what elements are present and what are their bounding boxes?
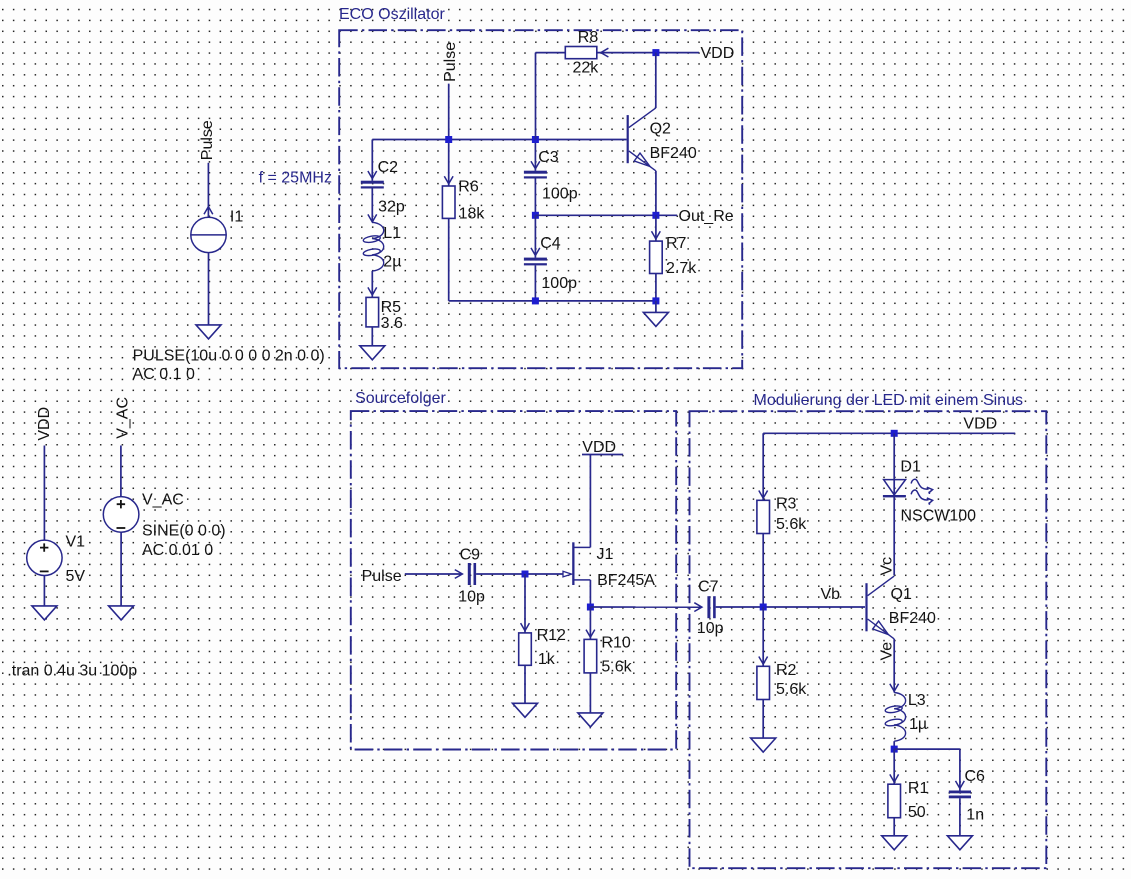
svg-text:VDD: VDD bbox=[36, 407, 53, 441]
svg-text:SINE(0 0 0): SINE(0 0 0) bbox=[142, 523, 226, 540]
svg-text:50: 50 bbox=[908, 804, 926, 821]
svg-text:Vb: Vb bbox=[821, 586, 841, 603]
svg-text:VDD: VDD bbox=[963, 415, 997, 432]
svg-text:f = 25MHz: f = 25MHz bbox=[259, 170, 332, 187]
svg-text:1n: 1n bbox=[966, 807, 984, 824]
svg-text:R2: R2 bbox=[776, 662, 797, 679]
svg-text:100p: 100p bbox=[542, 186, 578, 203]
svg-text:L3: L3 bbox=[908, 692, 926, 709]
svg-text:10p: 10p bbox=[458, 588, 485, 605]
svg-text:10p: 10p bbox=[697, 620, 724, 637]
svg-text:C6: C6 bbox=[965, 768, 986, 785]
svg-text:Sourcefolger: Sourcefolger bbox=[355, 390, 446, 407]
svg-text:VDD: VDD bbox=[701, 45, 735, 62]
svg-text:C4: C4 bbox=[540, 235, 561, 252]
svg-text:.tran 0.4u 3u 100p: .tran 0.4u 3u 100p bbox=[7, 663, 137, 680]
svg-text:3.6: 3.6 bbox=[381, 315, 403, 332]
svg-text:PULSE(10u 0 0 0 0 2n 0 0): PULSE(10u 0 0 0 0 2n 0 0) bbox=[133, 348, 325, 365]
svg-text:Q2: Q2 bbox=[650, 121, 671, 138]
svg-text:AC 0.01 0: AC 0.01 0 bbox=[142, 542, 213, 559]
svg-text:D1: D1 bbox=[900, 459, 921, 476]
svg-text:100p: 100p bbox=[541, 275, 577, 292]
svg-text:2.7k: 2.7k bbox=[666, 260, 697, 277]
svg-text:NSCW100: NSCW100 bbox=[901, 507, 977, 524]
svg-text:C3: C3 bbox=[538, 149, 559, 166]
svg-text:18k: 18k bbox=[459, 206, 486, 223]
svg-text:AC 0.1 0: AC 0.1 0 bbox=[133, 366, 195, 383]
svg-text:C2: C2 bbox=[378, 159, 399, 176]
svg-text:Out_Re: Out_Re bbox=[679, 208, 734, 225]
svg-text:R6: R6 bbox=[458, 179, 479, 196]
svg-text:R7: R7 bbox=[666, 235, 687, 252]
svg-text:22k: 22k bbox=[573, 59, 600, 76]
svg-text:R10: R10 bbox=[601, 634, 630, 651]
svg-text:Ve: Ve bbox=[879, 642, 896, 661]
svg-text:J1: J1 bbox=[597, 546, 614, 563]
svg-text:5V: 5V bbox=[66, 568, 86, 585]
svg-text:VDD: VDD bbox=[582, 439, 616, 456]
svg-text:Q1: Q1 bbox=[891, 586, 912, 603]
svg-text:L1: L1 bbox=[383, 225, 401, 242]
svg-text:V_AC: V_AC bbox=[142, 492, 184, 509]
svg-text:5.6k: 5.6k bbox=[776, 516, 807, 533]
svg-text:V_AC: V_AC bbox=[115, 397, 132, 439]
svg-text:R3: R3 bbox=[776, 495, 797, 512]
svg-text:Pulse: Pulse bbox=[362, 568, 402, 585]
svg-text:Vc: Vc bbox=[879, 557, 896, 576]
svg-text:BF245A: BF245A bbox=[597, 572, 655, 589]
svg-text:R5: R5 bbox=[381, 299, 402, 316]
svg-text:R8: R8 bbox=[578, 29, 599, 46]
svg-text:C7: C7 bbox=[698, 578, 719, 595]
svg-text:5.6k: 5.6k bbox=[601, 659, 632, 676]
svg-text:R1: R1 bbox=[908, 780, 929, 797]
svg-text:1k: 1k bbox=[538, 651, 556, 668]
svg-text:32p: 32p bbox=[378, 199, 405, 216]
svg-text:ECO Oszillator: ECO Oszillator bbox=[339, 6, 445, 23]
svg-text:Modulierung der LED mit einem: Modulierung der LED mit einem Sinus bbox=[754, 392, 1023, 409]
svg-text:1µ: 1µ bbox=[909, 716, 927, 733]
svg-text:C9: C9 bbox=[460, 546, 481, 563]
svg-text:BF240: BF240 bbox=[650, 145, 697, 162]
svg-text:BF240: BF240 bbox=[889, 610, 936, 627]
svg-text:V1: V1 bbox=[66, 533, 86, 550]
svg-text:2µ: 2µ bbox=[383, 253, 401, 270]
svg-text:R12: R12 bbox=[537, 627, 566, 644]
svg-text:Pulse: Pulse bbox=[442, 42, 459, 82]
svg-text:Pulse: Pulse bbox=[199, 120, 216, 160]
svg-text:5.6k: 5.6k bbox=[776, 681, 807, 698]
svg-text:I1: I1 bbox=[230, 208, 243, 225]
